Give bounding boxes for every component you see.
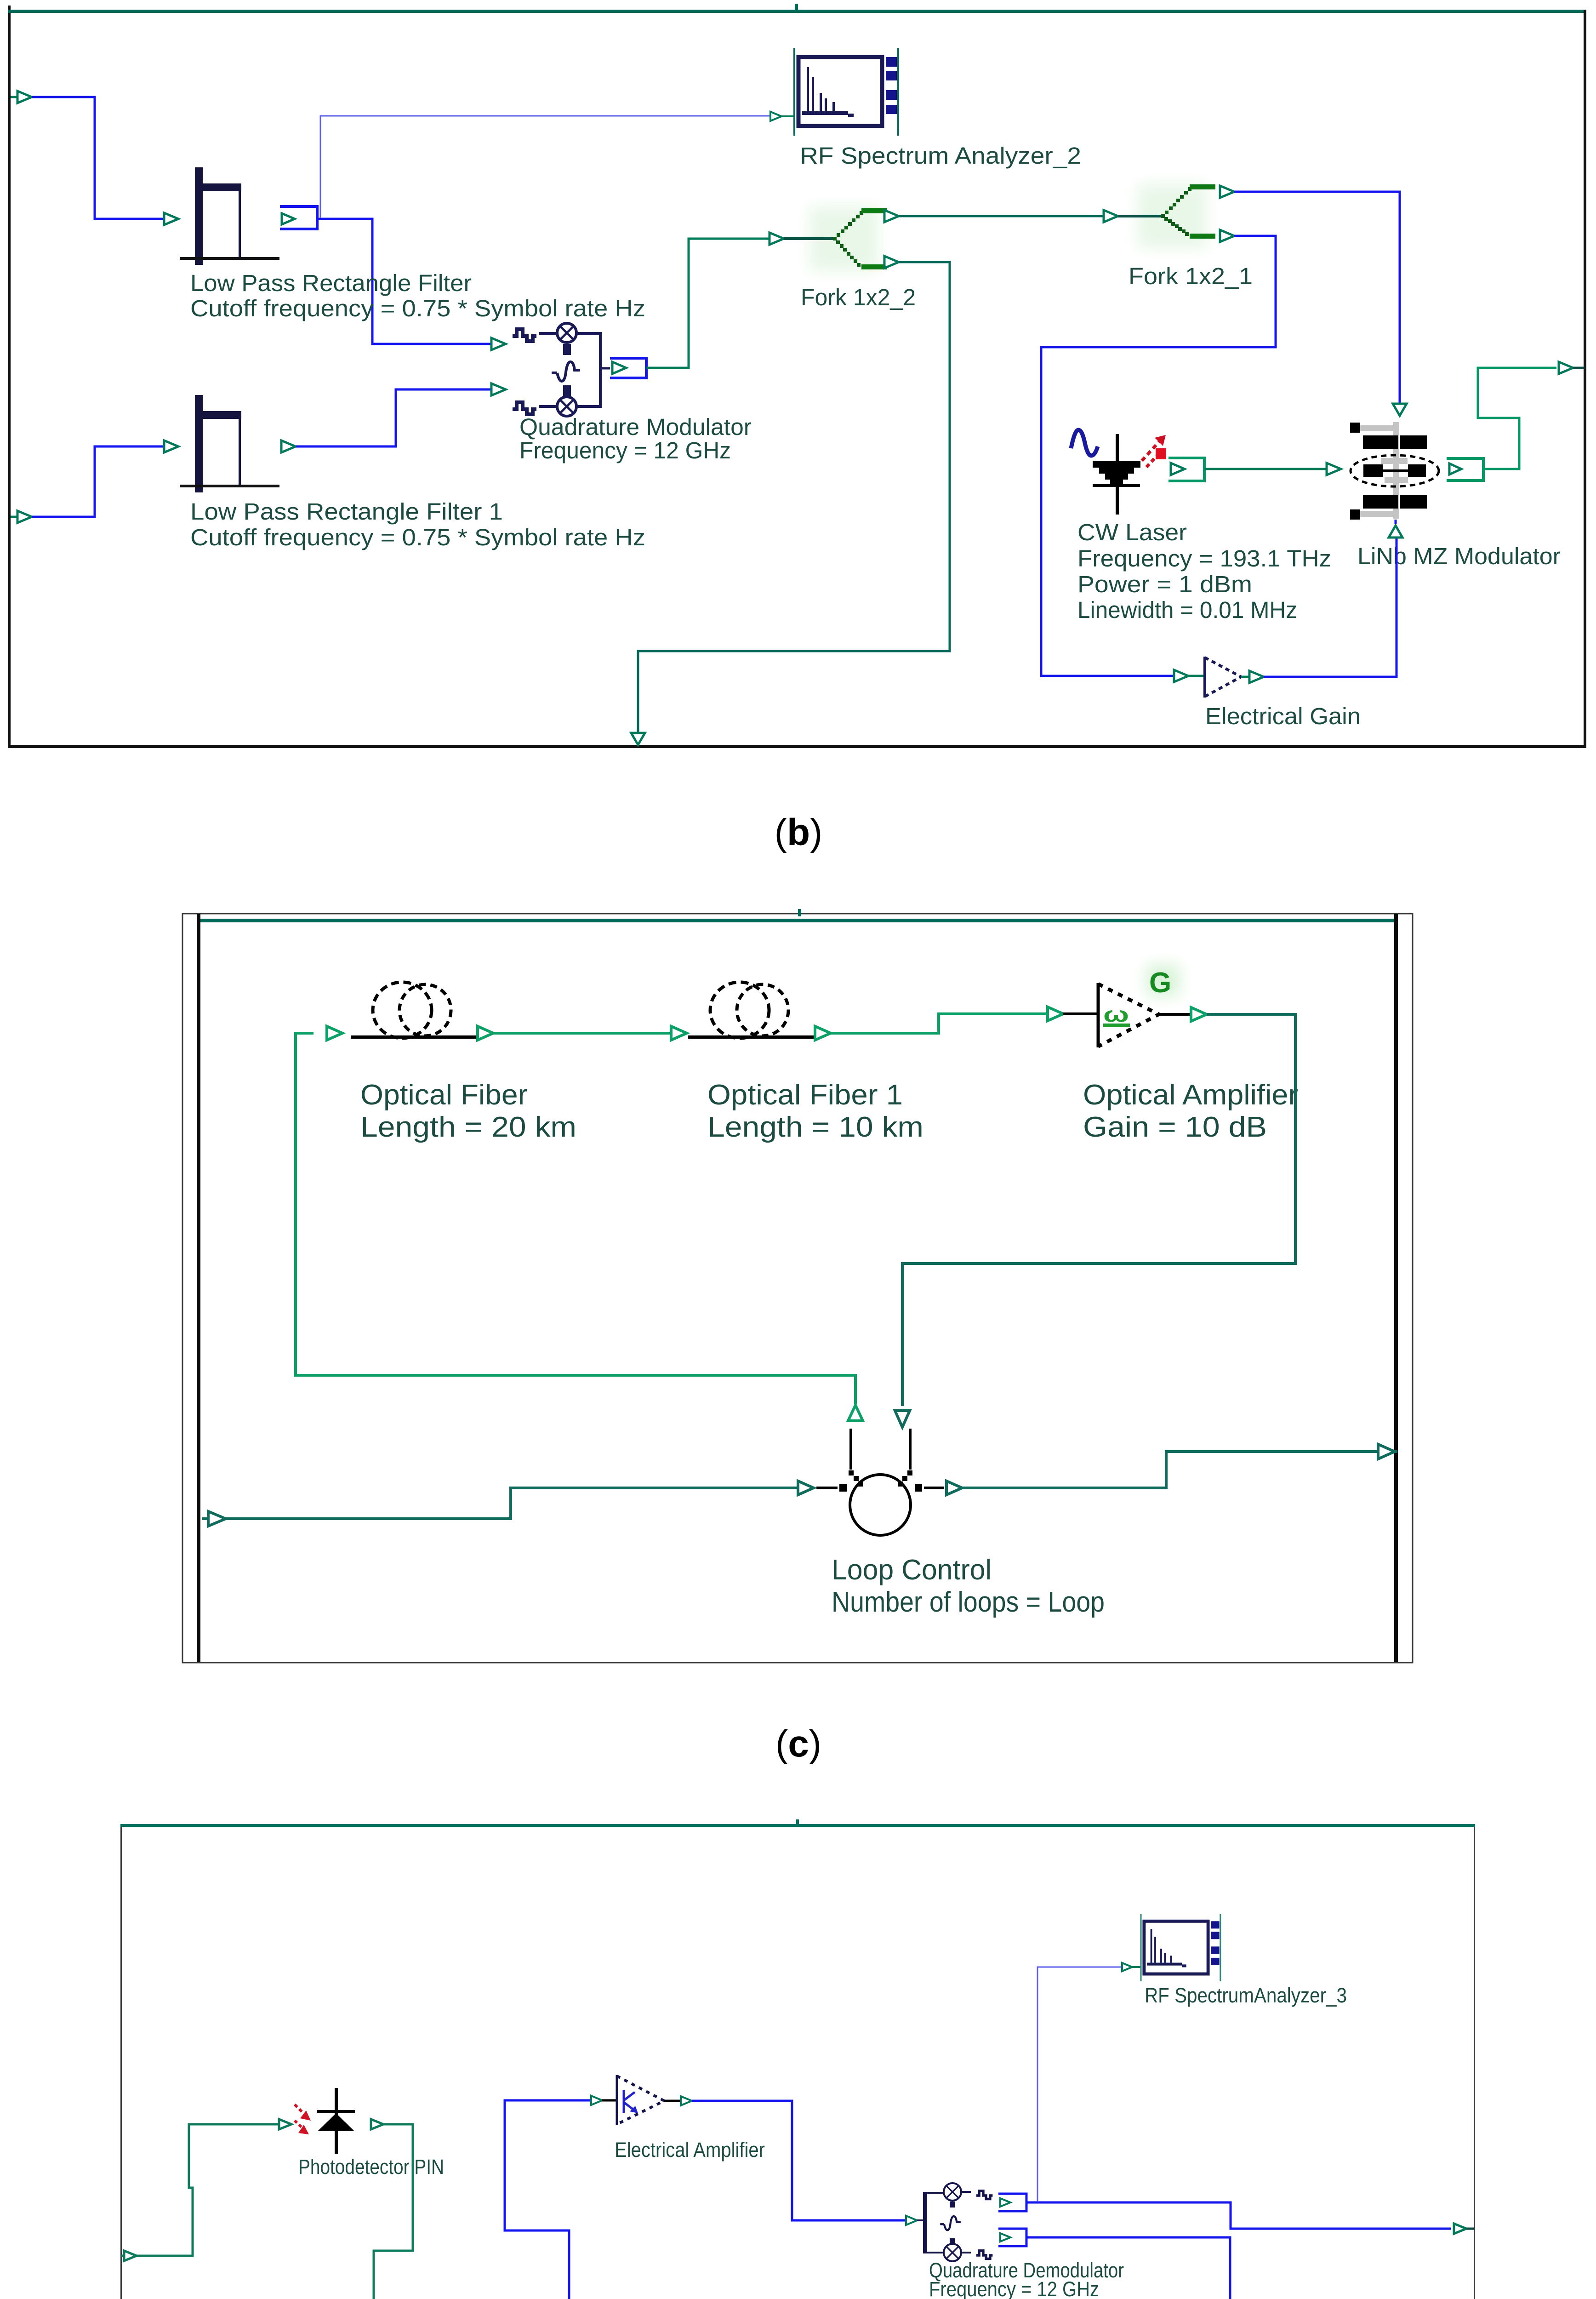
node input port 2 on left frame (11, 511, 32, 523)
wire U2 output I to right frame port (1026, 2202, 1474, 2234)
svg-text:RF Spectrum Analyzer_2: RF Spectrum Analyzer_2 (800, 143, 1081, 169)
loop control LC1 icon (816, 1429, 944, 1535)
RF spectrum analyzer SA3 icon (1141, 1914, 1220, 1981)
wire LPF2 output to Quadrature Modulator input 2 (296, 383, 506, 446)
svg-text:Optical Amplifier: Optical Amplifier (1083, 1079, 1298, 1111)
caption (b) (775, 812, 823, 853)
node panel c input port on left frame (202, 1511, 226, 1526)
label F1 (1129, 263, 1253, 289)
node port tick on panel c top frame (798, 909, 801, 916)
port LPF2 output arrow (281, 440, 296, 452)
photodetector PIN PD1 icon (295, 2088, 355, 2154)
port M1 output (green) (1447, 458, 1483, 480)
label SA3 (1145, 1984, 1347, 2007)
svg-text:RF SpectrumAnalyzer_3: RF SpectrumAnalyzer_3 (1145, 1984, 1347, 2007)
svg-text:Low Pass Rectangle Filter 1: Low Pass Rectangle Filter 1 (190, 498, 503, 525)
port Loop Control top-left (up arrow) (848, 1405, 863, 1421)
panel c outer frame (182, 914, 1413, 1663)
svg-text:Length = 10 km: Length = 10 km (707, 1111, 923, 1143)
svg-text:Electrical Gain: Electrical Gain (1205, 703, 1361, 729)
fork F2 (Fork 1x2_2) icon (769, 206, 899, 271)
CW laser LD1 icon (1071, 430, 1166, 515)
node PD1 output arrow (371, 2119, 383, 2129)
LiNb MZ modulator M1 icon (1350, 422, 1439, 520)
svg-text:G: G (1149, 967, 1171, 999)
wire LC1 output to right frame port (962, 1444, 1397, 1488)
wire LPF1 output to Quadrature Modulator input 1 (317, 219, 506, 350)
wire U2 output Q to right frame port (1026, 2237, 1474, 2299)
wire LD1 output to LiNb MZ Modulator input (1204, 463, 1341, 475)
label OA1 (1083, 1079, 1298, 1143)
wire panel c input to LC1 (226, 1488, 798, 1519)
label M1 (1357, 543, 1561, 569)
optical amplifier OA1 icon (1063, 965, 1207, 1047)
quadrature modulator U1 icon (513, 323, 610, 416)
wire panel d input to Photodetector PIN (137, 2119, 291, 2256)
wire F1 top output to LiNb MZ Modulator top port (1234, 192, 1407, 416)
port U1 output (blue) (610, 358, 646, 378)
node output port tick on top frame (795, 4, 798, 11)
label LPF2 (190, 498, 645, 550)
wire G1 output to M1 bottom port (1264, 520, 1402, 677)
svg-text:Number of loops = Loop: Number of loops = Loop (832, 1586, 1105, 1618)
wire input1 to Low Pass Rectangle Filter (32, 97, 178, 225)
node input port 1 on left frame (11, 91, 32, 103)
svg-text:Quadrature Modulator: Quadrature Modulator (519, 414, 752, 440)
label U1 (519, 414, 752, 463)
label LD1 (1077, 519, 1331, 623)
quadrature demodulator U2 icon (917, 2183, 992, 2261)
wire tap LPF1 to RF Spectrum Analyzer_2 (thin blue) (320, 112, 794, 218)
label SA2 (800, 143, 1081, 169)
wire tap U2 to RF SpectrumAnalyzer_3 (thin blue) (1037, 1963, 1141, 2202)
svg-text:Electrical Amplifier: Electrical Amplifier (615, 2138, 765, 2162)
wire loop return from Loop Control to Optical Fiber input (296, 1033, 855, 1404)
port U2 output Q (blue) (998, 2229, 1026, 2246)
wire F2 top output to Fork 1x2_1 input (899, 215, 1103, 217)
label OF1 (360, 1079, 576, 1143)
label U2 (929, 2259, 1124, 2299)
wire EA1 output to Quadrature Demodulator input (692, 2101, 917, 2225)
fork F1 (Fork 1x2_1) icon (1104, 184, 1234, 248)
RF spectrum analyzer SA2 icon (794, 48, 898, 136)
label PD1 (298, 2155, 444, 2179)
wire U1 output to Fork 1x2_2 input (646, 239, 769, 368)
svg-text:Frequency = 12 GHz: Frequency = 12 GHz (519, 437, 731, 463)
optical fiber OF2 icon (688, 982, 820, 1039)
node panel d input port on left frame (121, 2251, 137, 2261)
port LPF1 output (blue) (280, 206, 317, 229)
label EA1 (615, 2138, 765, 2162)
wire F1 bottom output to Electrical Gain input (1041, 236, 1276, 682)
node LC1 input arrow (798, 1481, 814, 1495)
svg-text:Fork 1x2_1: Fork 1x2_1 (1129, 263, 1253, 289)
svg-text:Optical Fiber 1: Optical Fiber 1 (707, 1079, 903, 1111)
label F2 (801, 284, 916, 310)
node LC1 output arrow (946, 1481, 962, 1495)
svg-text:Photodetector PIN: Photodetector PIN (298, 2155, 444, 2179)
panel d layout frame (120, 1824, 1475, 2299)
svg-text:LiNb MZ Modulator: LiNb MZ Modulator (1357, 543, 1561, 569)
svg-text:ω: ω (1103, 1002, 1129, 1026)
panel b layout frame (8, 6, 1586, 748)
wire OF1 to OF2 (478, 1026, 687, 1040)
svg-text:Cutoff frequency = 0.75 * Symb: Cutoff frequency = 0.75 * Symbol rate Hz (190, 295, 645, 321)
svg-text:Frequency = 193.1 THz: Frequency = 193.1 THz (1077, 545, 1331, 572)
wire PD1 output to Fork 1x2 input (374, 2124, 427, 2299)
optical fiber OF1 icon (351, 982, 482, 1039)
svg-text:Fork 1x2_2: Fork 1x2_2 (801, 284, 916, 310)
svg-text:Optical Fiber: Optical Fiber (360, 1079, 528, 1111)
svg-text:Cutoff frequency = 0.75 * Symb: Cutoff frequency = 0.75 * Symbol rate Hz (190, 524, 645, 550)
svg-text:Low Pass Rectangle Filter: Low Pass Rectangle Filter (190, 270, 472, 296)
label LC1 (832, 1554, 1105, 1618)
svg-text:CW Laser: CW Laser (1077, 519, 1187, 545)
port LD1 output (green) (1168, 458, 1204, 481)
label OF2 (707, 1079, 923, 1143)
svg-text:Length = 20 km: Length = 20 km (360, 1111, 576, 1143)
label G1 (1205, 703, 1361, 729)
electrical amplifier EA1 icon (602, 2075, 692, 2125)
svg-text:Loop Control: Loop Control (832, 1554, 992, 1586)
svg-text:Power = 1 dBm: Power = 1 dBm (1077, 571, 1252, 597)
node port tick on panel d top frame (796, 1819, 799, 1825)
electrical gain amplifier G1 icon (1188, 657, 1264, 698)
port U2 output I (blue) (998, 2194, 1026, 2211)
low-pass filter LPF2 (Low Pass Rectangle Filter 1) icon (180, 395, 279, 492)
node fiber OF1 input arrow (327, 1026, 342, 1040)
wire input2 to Low Pass Rectangle Filter 1 (32, 440, 178, 517)
wire M1 output to right frame output port (1478, 362, 1585, 469)
caption (c) (775, 1723, 821, 1765)
svg-text:Frequency = 12 GHz: Frequency = 12 GHz (929, 2277, 1099, 2299)
wire F3 top output to Electrical Amplifier input (505, 2096, 602, 2299)
wire OA1 output to Loop Control top-right port (895, 1014, 1295, 1427)
wire OF2 to Optical Amplifier (815, 1007, 1063, 1040)
svg-text:(c): (c) (775, 1723, 821, 1765)
svg-text:Gain = 10 dB: Gain = 10 dB (1083, 1111, 1267, 1143)
label LPF1 (190, 270, 645, 321)
svg-text:(b): (b) (775, 812, 823, 853)
svg-text:Linewidth = 0.01 MHz: Linewidth = 0.01 MHz (1077, 597, 1297, 623)
panel c inner layout frame (197, 914, 1398, 1662)
wire F2 bottom output to bottom frame port (631, 262, 950, 745)
low-pass filter LPF1 (Low Pass Rectangle Filter) icon (180, 167, 279, 265)
